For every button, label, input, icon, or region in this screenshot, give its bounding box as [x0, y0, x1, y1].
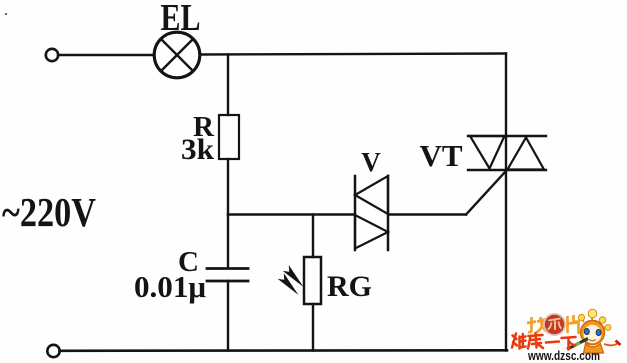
svg-text:VT: VT	[419, 138, 462, 173]
triac VT bottom bar	[468, 169, 546, 171]
watermark mascot head	[581, 321, 605, 345]
watermark mascot pen	[569, 339, 589, 349]
watermark group	[512, 309, 621, 363]
triac VT right triangle	[508, 138, 545, 170]
wire node to diac	[228, 213, 355, 215]
wire right corner down to triac	[505, 54, 507, 137]
diac V right bar	[387, 176, 390, 250]
wire capacitor to bottom	[227, 281, 229, 351]
watermark xin strokes	[548, 319, 562, 331]
wire diac to gate corner	[388, 213, 466, 215]
wire lamp to right corner	[200, 54, 506, 55]
lamp EL	[154, 32, 200, 78]
bottom terminal	[47, 345, 59, 357]
triac VT left triangle	[470, 136, 505, 169]
svg-text:~220V: ~220V	[2, 189, 96, 235]
svg-text:RG: RG	[327, 270, 372, 303]
watermark magnifier circle	[544, 314, 565, 335]
photoresistor light arrows	[278, 265, 304, 295]
watermark text weikuyixia	[512, 333, 576, 350]
gate diagonal to triac	[466, 171, 506, 215]
wire R bottom to node	[227, 159, 229, 215]
watermark mascot antenna balls	[578, 309, 610, 330]
wire top-left to lamp	[58, 54, 154, 56]
wire node down to capacitor	[227, 215, 229, 269]
wire node down to RG	[312, 215, 314, 258]
svg-text:EL: EL	[161, 0, 201, 39]
photoresistor RG body	[304, 257, 321, 304]
watermark char zhao	[527, 317, 547, 333]
wire triac to bottom	[505, 170, 507, 351]
terminal top-left	[46, 49, 58, 61]
watermark mascot body	[584, 344, 604, 354]
svg-text:3k: 3k	[181, 134, 215, 166]
watermark mascot right arm	[604, 344, 618, 346]
svg-text:www.dzsc.com: www.dzsc.com	[527, 349, 600, 363]
wire junction down to resistor R	[227, 55, 229, 116]
svg-text:V: V	[361, 147, 381, 177]
wire RG to bottom	[312, 304, 314, 351]
wire triac center vertical	[505, 136, 507, 170]
diac V lower triangle	[355, 215, 388, 249]
svg-text:0.01μ: 0.01μ	[134, 269, 206, 304]
watermark char pian	[568, 315, 579, 334]
speck	[5, 13, 7, 15]
diac V left bar	[354, 176, 357, 250]
capacitor C plates	[207, 267, 248, 270]
resistor R body	[219, 115, 239, 159]
diac V upper triangle	[355, 176, 388, 214]
triac VT top bar	[468, 135, 546, 137]
bottom wire	[60, 349, 508, 352]
watermark mascot eyes	[584, 328, 589, 334]
